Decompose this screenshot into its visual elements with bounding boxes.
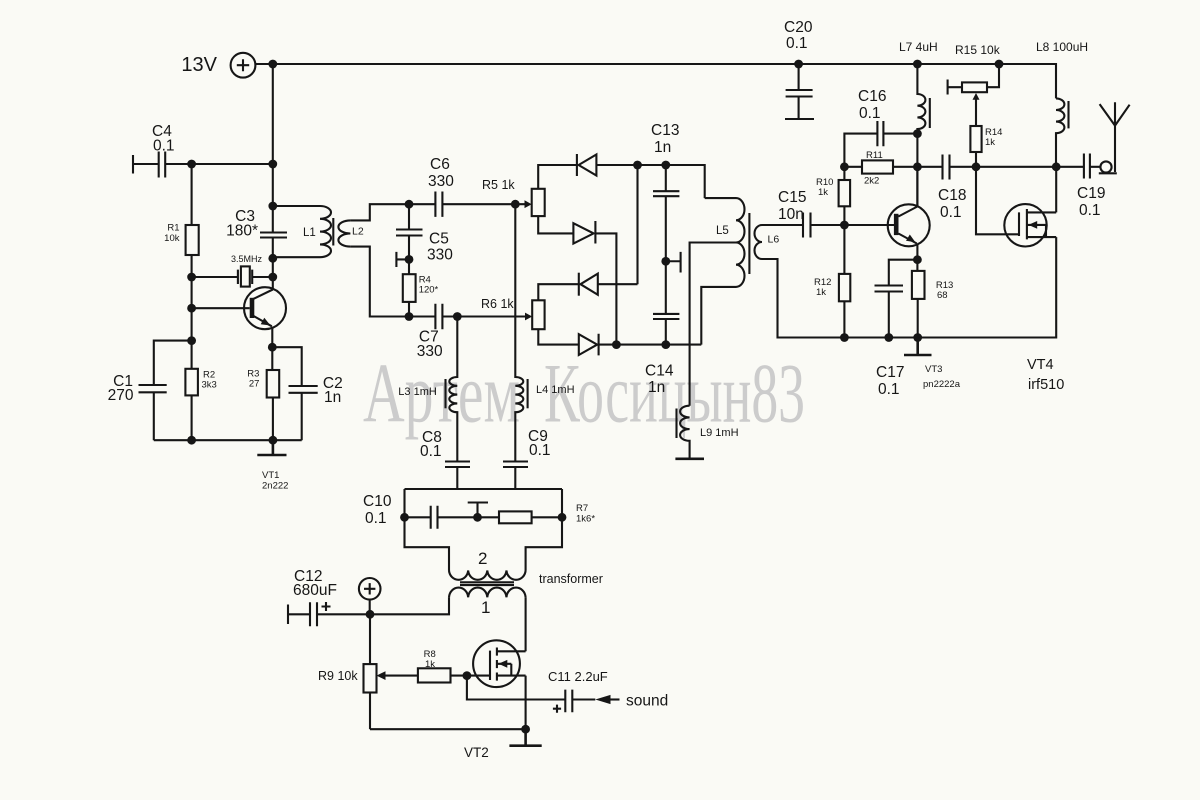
transistor VT2 (MOSFET) [464, 640, 526, 760]
svg-text:L1: L1 [303, 227, 316, 239]
sound input arrow [595, 693, 668, 710]
svg-text:0.1: 0.1 [786, 35, 808, 52]
svg-text:R11: R11 [866, 150, 883, 161]
capacitor C6 330 [428, 156, 526, 217]
resistor R4 120* [403, 259, 439, 316]
svg-text:R6 1k: R6 1k [481, 297, 514, 311]
svg-text:3.5MHz: 3.5MHz [231, 254, 263, 264]
svg-text:1n: 1n [648, 379, 665, 396]
node: emitter [268, 343, 277, 352]
svg-text:0.1: 0.1 [529, 442, 551, 459]
node: loop right mid [558, 513, 567, 522]
svg-text:VT4: VT4 [1027, 357, 1054, 373]
svg-text:13V: 13V [181, 54, 217, 76]
node: bottom rail left [187, 436, 196, 445]
node: C13 top [661, 161, 670, 170]
svg-text:0.1: 0.1 [878, 381, 900, 398]
wire: oscillator collector rail x=273 [272, 64, 274, 290]
svg-text:transformer: transformer [539, 572, 603, 586]
node: C13/C14 mid [661, 257, 670, 266]
svg-text:R7: R7 [576, 503, 588, 514]
resistor R11 2k2 [844, 150, 917, 187]
diode D2 [573, 221, 616, 345]
crystal 3.5MHz [192, 254, 273, 287]
antenna [1100, 102, 1130, 172]
node: tank bottom [268, 254, 277, 263]
svg-text:L2: L2 [352, 226, 364, 238]
node: C4/rail junction [268, 160, 277, 169]
svg-text:C16: C16 [858, 88, 886, 105]
potentiometer R5 1k [482, 178, 545, 216]
capacitor C12 680uF [288, 568, 370, 626]
power source (+) at C12 [359, 578, 381, 614]
capacitor C20 0.1 [784, 19, 814, 119]
diode D4 [579, 334, 617, 356]
capacitor C8 0.1 [420, 429, 470, 489]
potentiometer R6 1k [481, 297, 545, 329]
capacitor C18 0.1 [917, 155, 1084, 222]
wire: R5 bottom to D2 [538, 216, 573, 233]
resistor R3 27 [247, 369, 279, 398]
wire: R5 top to D1 [538, 165, 577, 189]
capacitor C13 1n [651, 122, 679, 261]
node: C5/C6 top [405, 200, 414, 209]
node: C12/R9 junction [366, 610, 375, 619]
svg-text:irf510: irf510 [1028, 377, 1064, 393]
node: R11 right [913, 162, 922, 171]
svg-text:2: 2 [478, 549, 487, 568]
wire: emitter to bottom rail [192, 347, 302, 440]
terminal stub below C5 [396, 252, 409, 267]
inductor L6 (RF transformer secondary) [755, 225, 845, 338]
svg-text:120*: 120* [419, 285, 439, 296]
transformer winding 2 [449, 549, 526, 580]
svg-text:1k: 1k [816, 287, 826, 298]
node: VT2 source/ground [521, 725, 530, 734]
capacitor C14 1n [645, 261, 679, 396]
svg-text:C18: C18 [938, 187, 966, 204]
svg-text:C10: C10 [363, 493, 392, 510]
wire: gate node to C11 [467, 676, 565, 700]
node: VT3 base [840, 221, 849, 230]
resistor R8 1k [386, 649, 491, 683]
antenna connector [1099, 161, 1117, 173]
svg-text:Косицын83: Косицын83 [544, 348, 805, 441]
svg-text:L4 1mH: L4 1mH [536, 384, 575, 396]
transistor VT4 irf510 [976, 167, 1064, 393]
node: VT3 emitter [913, 255, 922, 264]
inductor L9 1mH [677, 406, 739, 458]
node: C17 bottom rail [884, 333, 893, 342]
svg-text:2n222: 2n222 [262, 481, 288, 492]
resistor R7 1k6* [499, 503, 595, 525]
svg-text:330: 330 [427, 247, 453, 264]
svg-text:VT1: VT1 [262, 470, 279, 481]
svg-text:0.1: 0.1 [859, 105, 881, 122]
potentiometer R15 10k [948, 43, 1001, 126]
transistor VT3 pn2222a [888, 167, 961, 390]
inductor L4 1mH [515, 204, 574, 461]
node: VT2 gate [463, 671, 472, 680]
resistor R1 10k [164, 223, 199, 256]
svg-text:VT2: VT2 [464, 745, 489, 760]
capacitor C16 0.1 [844, 88, 917, 167]
terminal stub above C10/R7 node [468, 503, 488, 518]
capacitor C9 0.1 [503, 428, 551, 489]
node: crystal left [187, 273, 196, 282]
svg-text:C6: C6 [430, 156, 450, 173]
core L1/L2 [332, 218, 334, 246]
node: base junction [187, 304, 196, 313]
inductor L8 100uH [1036, 40, 1088, 167]
svg-text:1n: 1n [324, 389, 341, 406]
node: tank top [268, 202, 277, 211]
wire: D1 node down to D3 [636, 165, 638, 284]
capacitor C17 0.1 [875, 260, 918, 398]
transformer core [460, 582, 514, 585]
svg-text:1k: 1k [985, 137, 995, 148]
inductor L1 [273, 206, 331, 257]
svg-text:0.1: 0.1 [153, 138, 175, 155]
node: D1 out [633, 161, 642, 170]
node: C4/R1 junction [187, 160, 196, 169]
svg-text:1k: 1k [818, 187, 828, 198]
resistor R14 1k [970, 126, 1002, 167]
inductor L3 1mH [398, 317, 457, 462]
node: C5 bottom [405, 255, 414, 264]
svg-text:68: 68 [937, 290, 948, 301]
wire: +13V top rail [256, 64, 1057, 98]
svg-text:330: 330 [428, 173, 454, 190]
capacitor C10 0.1 [363, 493, 499, 529]
resistor R12 1k [814, 225, 850, 338]
node: R11 left [840, 162, 849, 171]
node: D4 out [612, 340, 621, 349]
wire: L2 bottom to C7 [350, 247, 435, 317]
inductor L7 4uH [899, 40, 938, 207]
transistor VT1 2n222 [192, 287, 289, 491]
power source +13V [181, 53, 255, 78]
capacitor C11 2.2uF [548, 669, 608, 713]
svg-text:270: 270 [108, 387, 134, 404]
inductor L5 (RF transformer primary) [701, 198, 744, 345]
node: C1 tap [187, 336, 196, 345]
svg-text:R1: R1 [167, 223, 179, 234]
node: R13 bottom rail [913, 333, 922, 342]
svg-text:R9 10k: R9 10k [318, 669, 358, 683]
svg-text:L9 1mH: L9 1mH [700, 427, 739, 439]
node: C20 top [794, 60, 803, 69]
svg-text:C14: C14 [645, 363, 674, 380]
svg-text:L6: L6 [768, 234, 780, 246]
svg-text:R5 1k: R5 1k [482, 178, 515, 192]
resistor R2 3k3 [185, 369, 216, 396]
capacitor C19 0.1 [1077, 154, 1105, 220]
svg-text:L3 1mH: L3 1mH [398, 386, 437, 398]
node: L8 bottom [1052, 162, 1061, 171]
wire: winding1 left to C12 node [370, 597, 449, 614]
capacitor C3 180* [226, 208, 287, 240]
svg-text:1: 1 [481, 598, 490, 617]
potentiometer R9 10k [318, 614, 386, 729]
svg-text:27: 27 [249, 378, 260, 389]
svg-text:3k3: 3k3 [202, 379, 217, 390]
node: C14 bottom [661, 340, 670, 349]
capacitor C2 1n [272, 347, 342, 440]
inductor L2 [338, 220, 363, 246]
svg-text:C19: C19 [1077, 185, 1105, 202]
svg-text:0.1: 0.1 [1079, 202, 1101, 219]
capacitor C5 330 [396, 204, 453, 263]
svg-text:sound: sound [626, 693, 668, 710]
svg-text:1n: 1n [654, 139, 671, 156]
node: R5 input [511, 200, 520, 209]
svg-text:330: 330 [417, 343, 443, 360]
wire: mixer bottom rail [616, 344, 701, 346]
node: R15 right top [995, 60, 1004, 69]
capacitor C1 270 [108, 341, 192, 441]
svg-text:L8 100uH: L8 100uH [1036, 40, 1088, 54]
node: R4 bottom [405, 312, 414, 321]
wire: VT2 bottom rail [370, 728, 526, 730]
capacitor C7 330 [417, 304, 525, 360]
node: C7 right / L3 tap [453, 312, 462, 321]
svg-text:Артем: Артем [363, 348, 520, 441]
svg-text:0.1: 0.1 [365, 510, 387, 527]
wire: base bias rail x=192 [191, 164, 193, 440]
ground (oscillator) [257, 440, 286, 455]
svg-text:0.1: 0.1 [420, 443, 442, 460]
node: C10/R7 junction [473, 513, 482, 522]
node: crystal right / collector [268, 273, 277, 282]
svg-text:VT3: VT3 [925, 364, 942, 375]
svg-text:10k: 10k [164, 233, 180, 244]
svg-text:0.1: 0.1 [940, 204, 962, 221]
resistor R10 1k [816, 167, 850, 225]
terminal stub at C13/C14 midpoint [666, 252, 681, 273]
wire: R6 bottom to D4 [538, 329, 579, 344]
ground (VT3 stage) [904, 338, 932, 356]
node: L7 bottom / C16 right [913, 129, 922, 138]
svg-text:C20: C20 [784, 19, 813, 36]
diode D1 [577, 154, 705, 198]
wire: R6 top to D3 [538, 284, 579, 300]
wire: winding1 right to VT2 drain [525, 597, 527, 651]
svg-text:C15: C15 [778, 189, 806, 206]
svg-text:C17: C17 [876, 364, 904, 381]
svg-text:10n: 10n [778, 206, 804, 223]
svg-text:1k: 1k [425, 659, 435, 670]
wire: emitter rail to VT4 source [844, 237, 1056, 337]
ground (L9) [675, 457, 704, 460]
audio transformer loop top [405, 489, 563, 571]
wire: L2 top to C6/C5 node [350, 204, 435, 220]
wire: L5 center tap to L9 [690, 243, 736, 406]
svg-text:R15 10k: R15 10k [955, 43, 1001, 57]
resistor R13 68 [912, 271, 953, 338]
svg-text:pn2222a: pn2222a [923, 379, 961, 390]
node: loop left mid [400, 513, 409, 522]
node: bottom rail right [269, 436, 278, 445]
ground (VT2) [509, 729, 541, 746]
svg-text:C5: C5 [429, 231, 449, 248]
capacitor C4 [133, 123, 273, 178]
svg-text:180*: 180* [226, 223, 258, 240]
svg-text:L5: L5 [716, 225, 729, 237]
svg-text:680uF: 680uF [293, 582, 337, 599]
svg-text:L7 4uH: L7 4uH [899, 40, 938, 54]
transformer winding 1 [449, 588, 526, 617]
core L5/L6 [748, 213, 750, 274]
capacitor C15 10n [762, 189, 894, 238]
svg-text:2k2: 2k2 [864, 176, 879, 187]
node: R12 bottom rail [840, 333, 849, 342]
node: C18 right / gate node [972, 162, 981, 171]
node: rail junction at oscillator [268, 60, 277, 69]
svg-text:C11 2.2uF: C11 2.2uF [548, 669, 608, 684]
svg-text:1k6*: 1k6* [576, 514, 595, 525]
node: L7 top [913, 60, 922, 69]
diode D3 [579, 273, 638, 296]
svg-text:C13: C13 [651, 122, 679, 139]
